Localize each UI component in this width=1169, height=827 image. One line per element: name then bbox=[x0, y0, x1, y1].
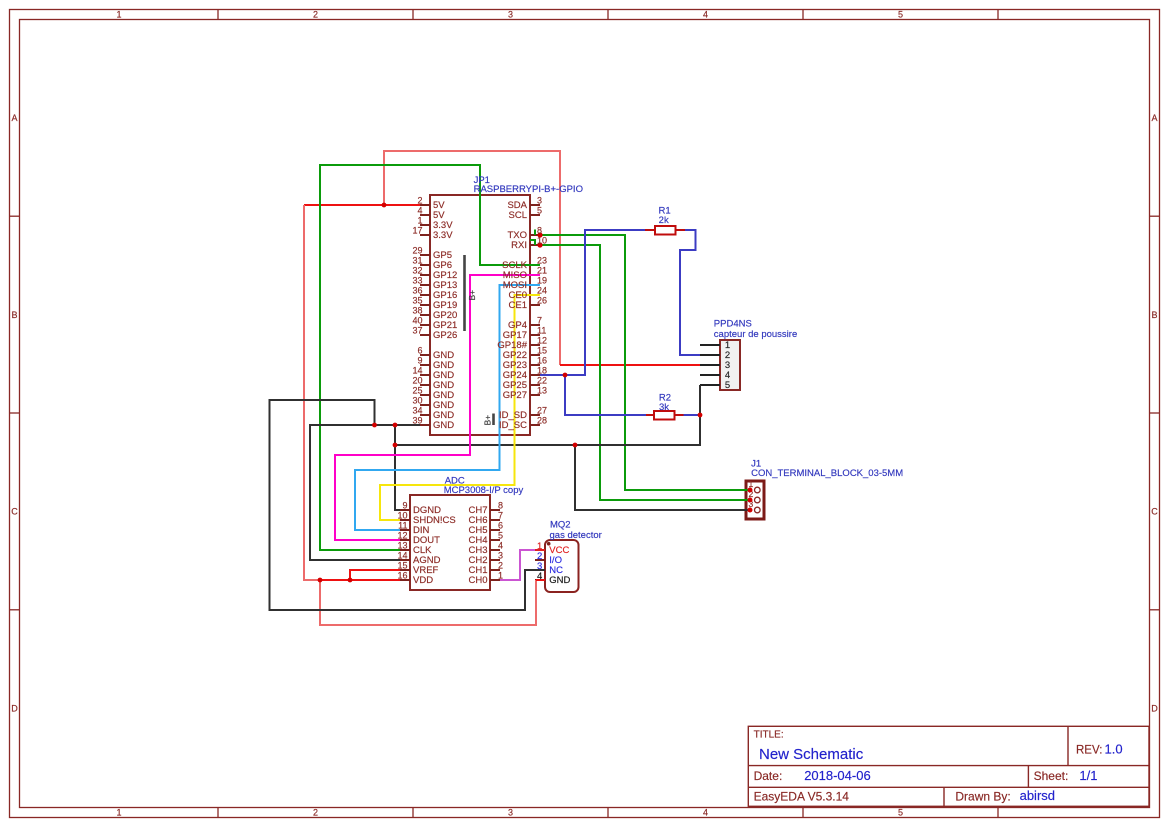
svg-text:Date:: Date: bbox=[754, 769, 783, 783]
svg-text:Drawn By:: Drawn By: bbox=[955, 789, 1010, 803]
svg-text:23: 23 bbox=[537, 256, 547, 266]
svg-text:C: C bbox=[11, 507, 18, 517]
svg-text:7: 7 bbox=[537, 316, 542, 326]
svg-text:1: 1 bbox=[116, 808, 121, 818]
junction R2 right node bbox=[698, 413, 703, 418]
sensor MQ2 gas detector body bbox=[535, 540, 579, 592]
svg-text:3k: 3k bbox=[659, 402, 669, 413]
svg-text:3: 3 bbox=[508, 10, 513, 20]
svg-text:34: 34 bbox=[412, 406, 422, 416]
svg-text:14: 14 bbox=[397, 551, 407, 561]
svg-text:C: C bbox=[1151, 507, 1158, 517]
wire GND branch to J1 pin 3 bbox=[575, 445, 750, 510]
wire MQ2 pin 4 stub link bbox=[536, 579, 545, 581]
wire MOSI to DIN bbox=[355, 285, 540, 530]
junction J1 pin 2 bbox=[748, 498, 753, 503]
svg-text:2: 2 bbox=[498, 561, 503, 571]
svg-text:5: 5 bbox=[898, 808, 903, 818]
svg-text:14: 14 bbox=[412, 366, 422, 376]
resistor R1 labels bbox=[659, 205, 671, 226]
svg-text:1: 1 bbox=[116, 10, 121, 20]
wire 5V top loop to PPD4NS pin 3 bbox=[384, 151, 560, 365]
svg-text:37: 37 bbox=[412, 326, 422, 336]
svg-text:B: B bbox=[11, 310, 17, 320]
wire R2 right to node bbox=[684, 414, 701, 416]
svg-text:15: 15 bbox=[537, 346, 547, 356]
wire GND branch to DGND bbox=[395, 425, 400, 510]
svg-text:38: 38 bbox=[412, 306, 422, 316]
svg-text:6: 6 bbox=[498, 521, 503, 531]
wire RXI stub spur bbox=[530, 240, 535, 245]
svg-text:8: 8 bbox=[537, 226, 542, 236]
junction GND bus J1 branch bbox=[573, 443, 578, 448]
svg-text:16: 16 bbox=[537, 356, 547, 366]
svg-text:20: 20 bbox=[412, 376, 422, 386]
junction VDD node 1 bbox=[318, 578, 323, 583]
junction J1 pin 3 bbox=[748, 508, 753, 513]
svg-text:B+: B+ bbox=[467, 290, 477, 301]
svg-text:12: 12 bbox=[397, 531, 407, 541]
svg-text:26: 26 bbox=[537, 296, 547, 306]
svg-text:capteur de poussire: capteur de poussire bbox=[714, 329, 797, 340]
svg-text:12: 12 bbox=[537, 336, 547, 346]
wire MQ2 pin 4 branch bbox=[320, 580, 536, 625]
svg-text:RXI: RXI bbox=[511, 240, 527, 251]
svg-text:CH0: CH0 bbox=[468, 575, 487, 586]
svg-text:MQ2: MQ2 bbox=[550, 519, 571, 530]
junction GND39 wireB bbox=[393, 423, 398, 428]
wire VREF branch bbox=[350, 570, 400, 580]
svg-text:2: 2 bbox=[313, 10, 318, 20]
svg-text:2k: 2k bbox=[659, 215, 669, 226]
svg-text:16: 16 bbox=[397, 571, 407, 581]
junction TXO node bbox=[537, 232, 542, 237]
junction GND39 wireA bbox=[372, 423, 377, 428]
wire PPD4NS pin 5 riser bbox=[699, 385, 701, 415]
svg-text:1: 1 bbox=[498, 571, 503, 581]
svg-text:10: 10 bbox=[537, 236, 547, 246]
svg-text:31: 31 bbox=[412, 256, 422, 266]
svg-text:TITLE:: TITLE: bbox=[754, 730, 784, 741]
svg-text:A: A bbox=[11, 113, 17, 123]
wire TXO to J1 pin 1 bbox=[540, 235, 750, 490]
svg-text:Sheet:: Sheet: bbox=[1034, 769, 1069, 783]
svg-text:ID_SC: ID_SC bbox=[499, 420, 527, 431]
wire PPD4NS pin 3 feed bbox=[560, 364, 700, 366]
svg-text:CON_TERMINAL_BLOCK_03-5MM: CON_TERMINAL_BLOCK_03-5MM bbox=[751, 468, 903, 479]
wire GND bus to R2/PPD4NS pin 5 bbox=[395, 415, 700, 445]
svg-text:10: 10 bbox=[397, 511, 407, 521]
wire GND39 to AGND bbox=[310, 425, 420, 560]
svg-text:29: 29 bbox=[412, 246, 422, 256]
svg-text:gas detector: gas detector bbox=[550, 530, 602, 541]
svg-text:1: 1 bbox=[749, 479, 754, 489]
svg-text:32: 32 bbox=[412, 266, 422, 276]
svg-text:27: 27 bbox=[537, 406, 547, 416]
svg-text:abirsd: abirsd bbox=[1020, 788, 1055, 803]
svg-text:A: A bbox=[1151, 113, 1157, 123]
svg-text:13: 13 bbox=[397, 541, 407, 551]
wire 5V vertical trunk bbox=[304, 205, 320, 580]
svg-text:15: 15 bbox=[397, 561, 407, 571]
IC ADC pin numbers and names bbox=[397, 475, 523, 586]
svg-text:GND: GND bbox=[433, 420, 454, 431]
svg-text:25: 25 bbox=[412, 386, 422, 396]
svg-text:1.0: 1.0 bbox=[1105, 742, 1123, 757]
svg-text:40: 40 bbox=[412, 316, 422, 326]
wire MISO to DOUT bbox=[335, 275, 540, 540]
svg-text:5: 5 bbox=[725, 380, 730, 391]
svg-text:3: 3 bbox=[508, 808, 513, 818]
svg-text:7: 7 bbox=[498, 511, 503, 521]
svg-text:SCL: SCL bbox=[509, 210, 527, 221]
svg-text:3.3V: 3.3V bbox=[433, 230, 453, 241]
svg-text:30: 30 bbox=[412, 396, 422, 406]
wire RXI to J1 pin 2 bbox=[540, 245, 750, 500]
wire GND loop to MQ2 pin 3 bbox=[270, 400, 546, 610]
svg-text:5: 5 bbox=[537, 206, 542, 216]
svg-text:RASPBERRYPI-B+-GPIO: RASPBERRYPI-B+-GPIO bbox=[474, 184, 583, 195]
connector PPD4NS pin numbers and names bbox=[714, 319, 797, 392]
svg-text:2: 2 bbox=[313, 808, 318, 818]
svg-text:2: 2 bbox=[417, 196, 422, 206]
sensor MQ2 pin numbers and names bbox=[537, 519, 602, 586]
svg-text:6: 6 bbox=[417, 346, 422, 356]
wire CE0 to SHDN!CS bbox=[380, 295, 540, 520]
connector JP1 RASPBERRYPI-B+-GPIO body bbox=[420, 195, 540, 435]
svg-text:39: 39 bbox=[412, 416, 422, 426]
svg-text:18: 18 bbox=[537, 366, 547, 376]
junction VDD node 2 bbox=[348, 578, 353, 583]
svg-text:36: 36 bbox=[412, 286, 422, 296]
connector J1 labels bbox=[751, 458, 903, 479]
wire VDD row bbox=[320, 579, 400, 581]
svg-text:D: D bbox=[11, 703, 18, 713]
svg-text:9: 9 bbox=[402, 501, 407, 511]
svg-text:New Schematic: New Schematic bbox=[759, 746, 864, 763]
svg-text:GP26: GP26 bbox=[433, 330, 457, 341]
svg-text:B: B bbox=[1151, 310, 1157, 320]
wire 5V to JP1 pin 2 bbox=[304, 204, 420, 206]
svg-text:1: 1 bbox=[417, 216, 422, 226]
svg-text:D: D bbox=[1151, 703, 1158, 713]
junction RXI node bbox=[537, 242, 542, 247]
svg-text:19: 19 bbox=[537, 276, 547, 286]
svg-text:2018-04-06: 2018-04-06 bbox=[804, 768, 871, 783]
svg-text:4: 4 bbox=[417, 206, 422, 216]
wire GP24 to R1 left bbox=[540, 230, 645, 375]
wire R1 right to PPD4NS pin 2 bbox=[680, 230, 700, 355]
svg-text:4: 4 bbox=[703, 10, 708, 20]
connector J1 CON_TERMINAL_BLOCK_03-5MM body bbox=[746, 479, 764, 519]
svg-text:3: 3 bbox=[498, 551, 503, 561]
svg-text:13: 13 bbox=[537, 386, 547, 396]
junction J1 pin 1 bbox=[748, 488, 753, 493]
svg-text:24: 24 bbox=[537, 286, 547, 296]
resistor R1 2k body bbox=[645, 226, 685, 235]
svg-text:VDD: VDD bbox=[413, 575, 433, 586]
svg-text:4: 4 bbox=[537, 571, 542, 582]
svg-text:1/1: 1/1 bbox=[1079, 768, 1097, 783]
resistor R2 3k body bbox=[646, 411, 684, 420]
svg-text:EasyEDA V5.3.14: EasyEDA V5.3.14 bbox=[754, 789, 850, 803]
svg-text:22: 22 bbox=[537, 376, 547, 386]
junction GP24 node bbox=[563, 373, 568, 378]
wire SCLK to CLK bbox=[320, 165, 540, 550]
wire TXO stub spur bbox=[534, 230, 536, 236]
svg-text:4: 4 bbox=[703, 808, 708, 818]
svg-text:3: 3 bbox=[537, 196, 542, 206]
svg-text:9: 9 bbox=[417, 356, 422, 366]
svg-text:28: 28 bbox=[537, 416, 547, 426]
wire GP24 branch to R2 left bbox=[565, 375, 646, 415]
svg-text:CE1: CE1 bbox=[509, 300, 527, 311]
resistor R2 labels bbox=[659, 392, 671, 413]
wire CH0 to MQ2 VCC bbox=[500, 550, 535, 580]
svg-text:35: 35 bbox=[412, 296, 422, 306]
connector JP1 pin numbers and names bbox=[412, 175, 582, 431]
svg-text:11: 11 bbox=[398, 521, 407, 531]
svg-text:5: 5 bbox=[498, 531, 503, 541]
svg-text:5: 5 bbox=[898, 10, 903, 20]
svg-text:21: 21 bbox=[537, 266, 547, 276]
svg-text:11: 11 bbox=[537, 326, 546, 336]
svg-text:MCP3008-I/P copy: MCP3008-I/P copy bbox=[444, 485, 524, 496]
svg-text:8: 8 bbox=[498, 501, 503, 511]
svg-text:GND: GND bbox=[549, 575, 570, 586]
svg-text:17: 17 bbox=[412, 226, 422, 236]
svg-text:4: 4 bbox=[498, 541, 503, 551]
junction 5V node bbox=[382, 203, 387, 208]
junction GND bus left bbox=[393, 443, 398, 448]
connector PPD4NS capteur de poussire body bbox=[700, 340, 740, 390]
svg-text:B+: B+ bbox=[483, 415, 493, 426]
svg-text:33: 33 bbox=[412, 276, 422, 286]
IC ADC MCP3008-I/P copy body bbox=[400, 495, 500, 590]
svg-text:GP27: GP27 bbox=[503, 390, 527, 401]
svg-text:REV:: REV: bbox=[1076, 745, 1102, 757]
